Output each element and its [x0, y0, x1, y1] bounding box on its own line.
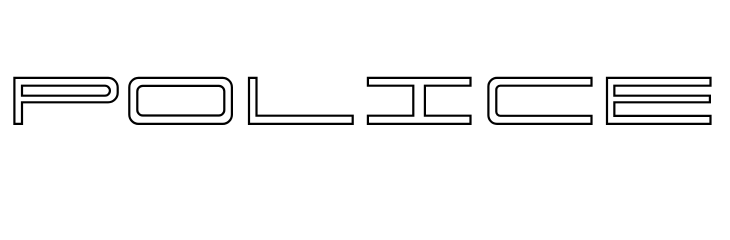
letter O inner	[137, 86, 224, 116]
letter O outer	[129, 78, 232, 124]
letter E	[607, 78, 711, 124]
letter L	[249, 78, 353, 124]
letter P slot	[22, 86, 110, 96]
letter P outer	[14, 78, 117, 124]
letter I	[368, 78, 471, 124]
letter C	[488, 78, 591, 124]
